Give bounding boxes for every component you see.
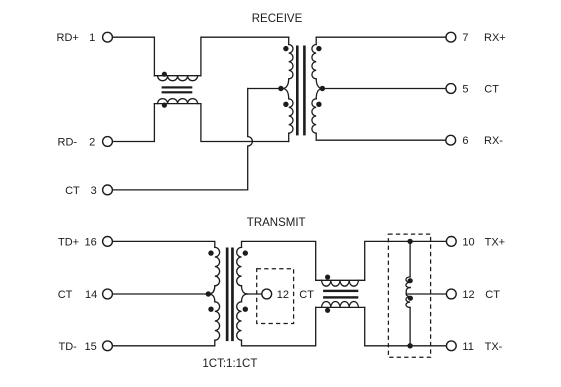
svg-text:TX+: TX+ — [485, 236, 505, 248]
svg-text:1: 1 — [89, 32, 95, 44]
svg-text:2: 2 — [89, 137, 95, 149]
svg-text:RX-: RX- — [484, 135, 503, 147]
svg-text:CT: CT — [299, 289, 314, 301]
svg-text:RX+: RX+ — [484, 32, 506, 44]
svg-text:15: 15 — [85, 341, 97, 353]
svg-text:3: 3 — [91, 185, 97, 197]
svg-text:11: 11 — [462, 341, 473, 353]
svg-text:1CT:1:1CT: 1CT:1:1CT — [202, 358, 257, 370]
svg-text:12: 12 — [277, 289, 289, 301]
svg-text:TRANSMIT: TRANSMIT — [247, 217, 306, 229]
svg-text:12: 12 — [462, 289, 474, 301]
svg-text:TD+: TD+ — [58, 236, 79, 248]
svg-text:TD-: TD- — [59, 341, 78, 353]
svg-text:CT: CT — [484, 84, 499, 96]
svg-text:RD-: RD- — [58, 137, 78, 149]
svg-text:5: 5 — [462, 84, 468, 96]
svg-text:16: 16 — [85, 236, 97, 248]
svg-text:CT: CT — [58, 289, 73, 301]
svg-text:TX-: TX- — [485, 341, 503, 353]
svg-text:14: 14 — [85, 289, 97, 301]
svg-text:CT: CT — [65, 185, 80, 197]
svg-text:RD+: RD+ — [57, 32, 79, 44]
svg-text:CT: CT — [485, 289, 500, 301]
svg-text:RECEIVE: RECEIVE — [252, 13, 303, 25]
svg-text:10: 10 — [462, 236, 474, 248]
svg-text:7: 7 — [462, 32, 468, 44]
svg-text:6: 6 — [462, 135, 468, 147]
